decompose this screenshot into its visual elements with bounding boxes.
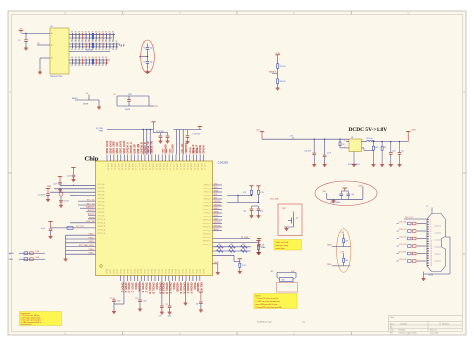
svg-text:LCD_D0: LCD_D0 [399,222,406,224]
svg-text:VSSIO: VSSIO [134,283,136,290]
svg-text:GPIO2: GPIO2 [148,269,150,274]
svg-text:4.7uF: 4.7uF [117,301,121,303]
svg-text:R12 10K: R12 10K [86,50,94,52]
svg-text:RTC_X1: RTC_X1 [87,200,96,202]
svg-text:13: 13 [430,248,432,250]
svg-text:88: 88 [92,57,94,59]
svg-text:15: 15 [430,253,432,255]
svg-text:GPIO4: GPIO4 [155,269,157,274]
svg-text:connector end: connector end [21,323,32,326]
svg-text:VCC18D: VCC18D [96,128,104,130]
svg-text:88: 88 [112,49,114,51]
svg-text:GPIO4: GPIO4 [121,269,123,274]
svg-text:VDD18: VDD18 [193,147,195,153]
svg-text:88: 88 [116,41,118,43]
svg-text:GPIO0: GPIO0 [107,269,109,274]
svg-text:PWR: PWR [99,131,104,133]
svg-text:GPIO6_B: GPIO6_B [204,206,211,208]
svg-text:88: 88 [105,57,107,59]
svg-text:0.1uF: 0.1uF [67,176,71,178]
svg-text:LCD_D2: LCD_D2 [399,237,406,239]
svg-text:88: 88 [92,65,94,67]
svg-text:GPIO8_C: GPIO8_C [141,283,143,293]
svg-text:SDIO_D0: SDIO_D0 [121,163,123,170]
svg-text:0.1uF 16V: 0.1uF 16V [193,133,202,135]
svg-text:VSSIO: VSSIO [155,283,157,290]
svg-text:Date:: Date: [390,329,395,332]
svg-text:C21: C21 [110,298,113,300]
svg-text:88: 88 [116,49,118,51]
svg-text:XI2: XI2 [271,271,274,273]
svg-text:MISO: MISO [214,208,219,210]
svg-text:traces short: traces short [276,247,286,250]
svg-text:GPIO3: GPIO3 [152,269,154,274]
svg-text:SDIO_D2: SDIO_D2 [169,163,171,170]
svg-text:SDIO_D3: SDIO_D3 [186,163,188,170]
svg-text:CS0: CS0 [214,218,218,220]
svg-text:SDIO_D2: SDIO_D2 [155,163,157,170]
svg-text:GPIO22: GPIO22 [214,204,221,206]
svg-text:R5 10K: R5 10K [280,66,287,68]
svg-text:GPIO9_C: GPIO9_C [144,283,146,293]
svg-text:GPIO34_A: GPIO34_A [127,142,130,154]
svg-text:1uF: 1uF [196,304,199,306]
svg-text:SDIO_D3: SDIO_D3 [145,163,147,170]
svg-text:SENSE_VP: SENSE_VP [148,141,150,154]
svg-text:GPIO21: GPIO21 [214,201,221,203]
svg-text:VSS3: VSS3 [166,149,168,154]
svg-text:ADC0: ADC0 [214,228,219,231]
svg-text:19: 19 [430,263,432,265]
svg-text:88: 88 [78,49,80,51]
svg-text:GPIO2: GPIO2 [183,269,185,274]
svg-text:GPIO2: GPIO2 [114,269,116,274]
svg-text:VREF: VREF [244,237,249,239]
svg-text:SDIO_D3: SDIO_D3 [131,163,133,170]
svg-text:88: 88 [102,41,104,43]
svg-text:Revision: Revision [442,323,449,325]
svg-text:R6 10K: R6 10K [280,81,287,83]
svg-text:PEN0: PEN0 [327,245,331,247]
svg-text:GPIO10_D: GPIO10_D [148,283,150,295]
svg-text:GPIO36_B: GPIO36_B [141,142,143,154]
svg-text:SDIO_D1: SDIO_D1 [110,163,112,170]
svg-text:100n: 100n [168,315,172,317]
svg-text:GPIO5: GPIO5 [158,269,160,274]
svg-text:GPIO3_B: GPIO3_B [204,195,211,197]
svg-text:88: 88 [78,65,80,67]
svg-text:GPIO25: GPIO25 [214,222,221,224]
svg-text:22p: 22p [150,48,153,50]
svg-text:GPIO16_E: GPIO16_E [179,283,181,295]
svg-text:16: 16 [430,255,432,257]
svg-text:88: 88 [85,65,87,67]
svg-text:USB_DP: USB_DP [134,144,136,154]
svg-text:17: 17 [430,258,432,260]
svg-text:GPIO3: GPIO3 [117,269,119,274]
svg-text:GPIO7_B: GPIO7_B [204,209,211,211]
svg-text:Y3 32.768KHz: Y3 32.768KHz [330,202,341,204]
svg-text:88: 88 [82,32,84,34]
svg-text:88: 88 [112,41,114,43]
svg-text:1. Place C21 close to pin 43: 1. Place C21 close to pin 43 [256,297,278,300]
svg-text:EXT_PAD_GND: EXT_PAD_GND [79,244,94,247]
svg-text:GPIO5_B: GPIO5_B [204,202,211,204]
svg-text:SDIO_D1: SDIO_D1 [124,163,126,170]
svg-text:22p: 22p [261,210,264,212]
svg-text:RX0: RX0 [214,187,218,189]
svg-text:88: 88 [112,32,114,34]
svg-text:0.1uF: 0.1uF [41,228,45,230]
svg-text:PEN1: PEN1 [327,264,331,266]
svg-text:GPIO9: GPIO9 [172,269,174,274]
svg-text:SDIO_D1: SDIO_D1 [165,163,167,170]
svg-text:VSS2: VSS2 [88,237,94,239]
svg-text:GPIO8: GPIO8 [134,269,136,274]
svg-text:SDIO_D0: SDIO_D0 [203,163,205,170]
svg-text:88: 88 [88,41,90,43]
svg-text:SDIO_DAT3: SDIO_DAT3 [109,140,112,153]
svg-text:SDIO_D0: SDIO_D0 [134,163,136,170]
svg-text:U4: U4 [351,137,353,139]
svg-text:VCCA18: VCCA18 [171,144,174,154]
svg-text:VSS5: VSS5 [88,253,94,255]
svg-text:GPIO11_D: GPIO11_D [151,283,153,294]
svg-text:TX0: TX0 [214,183,217,185]
svg-text:11: 11 [430,243,432,245]
svg-text:SDIO_D3: SDIO_D3 [172,163,174,170]
svg-text:C31 22uF: C31 22uF [304,151,311,153]
svg-text:SDIO_D2: SDIO_D2 [183,163,185,170]
svg-text:C:\Users\..\chip.SchDoc: C:\Users\..\chip.SchDoc [398,332,417,334]
svg-text:88: 88 [78,41,80,43]
svg-text:GPIO39: GPIO39 [200,144,202,153]
svg-text:SDIO_D2: SDIO_D2 [114,163,116,170]
svg-text:I2C0_SDA: I2C0_SDA [270,198,279,201]
svg-text:88: 88 [102,49,104,51]
svg-text:0.1uF: 0.1uF [143,301,147,303]
svg-text:88: 88 [82,49,84,51]
svg-text:GPIO1_B: GPIO1_B [204,188,211,190]
svg-text:SDIO_D0: SDIO_D0 [148,163,150,170]
svg-text:C8 1uF: C8 1uF [64,201,69,203]
svg-text:BOOT1: BOOT1 [88,214,96,216]
svg-text:0.1u: 0.1u [401,150,404,152]
svg-text:route USB pair with 90 ohm: route USB pair with 90 ohm [256,303,278,306]
svg-text:88: 88 [99,49,101,51]
svg-text:3. Keep RTC xtal away from SW: 3. Keep RTC xtal away from SW [256,306,282,309]
svg-text:L2 2.2uH: L2 2.2uH [366,138,373,140]
svg-text:D2: D2 [114,94,116,96]
svg-text:88: 88 [75,32,77,34]
svg-text:88: 88 [105,41,107,43]
svg-text:GPIO7: GPIO7 [200,269,202,274]
svg-text:GPIO5: GPIO5 [193,269,195,274]
svg-text:88: 88 [105,32,107,34]
svg-text:RESET: RESET [72,98,78,100]
svg-text:88: 88 [82,65,84,67]
svg-text:22uF: 22uF [53,183,57,185]
svg-text:Size: Size [390,323,394,325]
svg-text:Drawn By:: Drawn By: [430,332,439,334]
svg-text:C22: C22 [135,298,138,300]
svg-text:GPIO12_B: GPIO12_B [203,227,211,229]
svg-text:88: 88 [109,41,111,43]
svg-text:RTC_X2: RTC_X2 [87,203,96,205]
svg-text:VSSIO: VSSIO [172,283,174,290]
svg-text:88: 88 [85,41,87,43]
svg-text:SCL: SCL [214,194,218,196]
svg-text:File:: File: [390,332,394,334]
svg-text:VDD18D: VDD18D [176,283,178,292]
svg-text:GPIO15_B: GPIO15_B [203,237,211,239]
svg-text:R3: R3 [86,93,88,95]
svg-text:C23: C23 [165,304,168,306]
svg-text:VSS1: VSS1 [88,234,94,236]
svg-text:88: 88 [71,49,73,51]
svg-text:1uF: 1uF [159,315,162,317]
svg-text:Number: Number [401,322,408,325]
svg-text:88: 88 [102,65,104,67]
svg-text:C1: C1 [18,40,20,42]
svg-text:SDIO_D0: SDIO_D0 [162,163,164,170]
svg-text:USB_DM: USB_DM [138,144,140,154]
svg-text:GPIO4_B: GPIO4_B [204,199,211,201]
svg-text:88: 88 [88,65,90,67]
svg-text:GPIO18_F: GPIO18_F [186,283,188,295]
svg-text:0.1uF/16V: 0.1uF/16V [38,195,46,197]
svg-text:EN2_IN: EN2_IN [200,283,202,291]
svg-text:GPIO40: GPIO40 [202,144,205,153]
svg-text:22p: 22p [243,210,246,212]
svg-text:GPIO6_C: GPIO6_C [127,283,129,293]
svg-text:88: 88 [109,49,111,51]
svg-text:GPIO0: GPIO0 [141,269,143,274]
svg-text:SDIO_DAT0: SDIO_DAT0 [120,140,123,153]
svg-text:22p: 22p [352,194,355,196]
svg-text:C5: C5 [143,48,145,50]
svg-text:22uF: 22uF [392,150,396,152]
svg-text:18: 18 [430,260,432,262]
svg-text:Y1: Y1 [143,42,145,44]
svg-text:88: 88 [95,57,97,59]
svg-text:VCC_LCD: VCC_LCD [405,217,414,219]
svg-text:GPIO0: GPIO0 [176,269,178,274]
svg-text:GPIO7_C: GPIO7_C [131,283,133,293]
svg-text:GPIO2_B: GPIO2_B [204,192,211,194]
svg-text:VSS3: VSS3 [170,149,172,154]
svg-text:C41: C41 [262,244,265,246]
svg-text:14: 14 [430,251,432,253]
svg-text:2. GND via under thermal pad,: 2. GND via under thermal pad, [256,300,281,303]
svg-text:LCD_HS: LCD_HS [399,259,407,261]
svg-text:LCD_CLK: LCD_CLK [398,252,407,254]
svg-text:GPIO9_B: GPIO9_B [204,216,211,218]
svg-text:88: 88 [99,41,101,43]
svg-text:GPIO6: GPIO6 [127,269,129,274]
svg-text:88: 88 [95,32,97,34]
svg-text:GPIO0_B: GPIO0_B [204,185,211,187]
svg-text:WAKEUP: WAKEUP [86,206,95,209]
svg-text:SDIO_D3: SDIO_D3 [117,163,119,170]
svg-text:GPIO6: GPIO6 [162,269,164,274]
svg-text:88: 88 [75,57,77,59]
svg-text:88: 88 [99,65,101,67]
svg-text:88: 88 [99,32,101,34]
svg-text:+1.8V: +1.8V [411,130,417,132]
svg-text:GPIO1: GPIO1 [145,269,147,274]
svg-text:12: 12 [430,246,432,248]
svg-text:C30260: C30260 [218,161,229,165]
svg-text:GPIO17_E: GPIO17_E [182,283,184,295]
svg-text:Sheet of: Sheet of [430,329,437,332]
svg-text:SDIO_D2: SDIO_D2 [196,163,198,170]
svg-text:SW-PB: SW-PB [125,109,130,111]
svg-text:20: 20 [430,265,432,267]
svg-text:GPIO3: GPIO3 [186,269,188,274]
svg-text:GPIO8_B: GPIO8_B [204,213,211,215]
svg-text:GPIO19_F: GPIO19_F [189,283,191,295]
svg-text:XO2: XO2 [291,271,294,273]
svg-text:GPIO11_B: GPIO11_B [203,223,211,225]
svg-text:+1.8V: +1.8V [275,53,281,55]
svg-text:VSSIO: VSSIO [193,283,195,290]
svg-text:+5 V: +5 V [119,44,126,48]
svg-text:GPIO14_D: GPIO14_D [165,283,168,295]
svg-text:SDIO_D1: SDIO_D1 [193,163,195,170]
svg-text:RSTN: RSTN [89,217,95,219]
svg-text:GPIO7: GPIO7 [131,269,133,274]
svg-text:88: 88 [71,57,73,59]
svg-text:SDIO_D1: SDIO_D1 [138,163,140,170]
svg-text:5V0: 5V0 [290,136,293,138]
svg-text:GPIO5: GPIO5 [124,269,126,274]
svg-text:GPIO35_A: GPIO35_A [130,142,133,154]
svg-text:VSS4: VSS4 [88,249,94,251]
svg-text:VDD18: VDD18 [197,147,199,153]
svg-text:88: 88 [71,32,73,34]
svg-text:88: 88 [95,65,97,67]
svg-text:88: 88 [88,57,90,59]
svg-text:C6: C6 [143,62,145,64]
svg-text:88: 88 [75,41,77,43]
svg-text:GPIO9: GPIO9 [138,269,140,274]
svg-text:88: 88 [102,57,104,59]
svg-text:GPIO14_B: GPIO14_B [203,234,211,236]
svg-text:GPIO8: GPIO8 [169,269,171,274]
svg-text:88: 88 [88,32,90,34]
svg-text:88: 88 [92,41,94,43]
svg-text:SDIO_DAT1: SDIO_DAT1 [123,140,126,153]
svg-text:CHIP_EN: CHIP_EN [86,221,95,223]
svg-text:VSS3: VSS3 [88,241,94,243]
svg-text:88: 88 [78,32,80,34]
svg-text:XI32: XI32 [323,191,327,193]
svg-text:GPIO16_B: GPIO16_B [203,241,211,243]
svg-text:22p: 22p [150,62,153,64]
svg-text:Small Main Chip: Small Main Chip [257,322,272,324]
svg-text:XTAL: use 12pF: XTAL: use 12pF [276,241,290,244]
svg-text:SDIO_CLK: SDIO_CLK [117,142,119,154]
svg-text:load caps, keep: load caps, keep [276,245,289,247]
svg-text:SDIO_CMD: SDIO_CMD [114,141,116,153]
svg-text:88: 88 [92,32,94,34]
svg-text:GPIO8: GPIO8 [203,269,205,274]
svg-text:88: 88 [75,65,77,67]
svg-text:SW-PB: SW-PB [83,104,88,106]
svg-text:88: 88 [105,49,107,51]
svg-text:VBAT: VBAT [47,185,51,188]
svg-text:GPIO13_B: GPIO13_B [203,230,211,232]
svg-text:SENSE_VN: SENSE_VN [152,141,154,154]
svg-text:88: 88 [99,57,101,59]
svg-text:0.1uF: 0.1uF [327,153,331,155]
svg-text:0.1uF: 0.1uF [262,247,266,249]
svg-text:88: 88 [95,49,97,51]
svg-text:88: 88 [85,32,87,34]
svg-text:SDIO_D0: SDIO_D0 [190,163,192,170]
svg-text:SDIO_D3: SDIO_D3 [158,163,160,170]
svg-text:88: 88 [75,49,77,51]
svg-text:88: 88 [82,57,84,59]
svg-text:SDIO_D0: SDIO_D0 [176,163,178,170]
svg-text:CANH: CANH [9,252,15,255]
svg-text:CANL: CANL [9,258,14,261]
svg-text:RST: RST [155,106,158,108]
svg-text:J1: J1 [426,206,428,208]
svg-text:GPIO4_C: GPIO4_C [120,283,123,293]
svg-text:SDIO_DAT2: SDIO_DAT2 [106,140,109,153]
svg-text:100K: 100K [375,147,379,149]
svg-text:BOOT0: BOOT0 [88,210,96,212]
svg-text:DCDC 5V->1.8V: DCDC 5V->1.8V [349,127,388,133]
svg-text:XO32: XO32 [358,186,362,188]
svg-text:DB20: DB20 [429,274,434,276]
svg-text:88: 88 [71,41,73,43]
svg-text:SN74LVC245: SN74LVC245 [50,76,63,78]
svg-text:SDIO_D2: SDIO_D2 [141,163,143,170]
svg-text:88: 88 [109,32,111,34]
svg-text:7/9/2024: 7/9/2024 [398,330,405,332]
svg-text:GPIO10_B: GPIO10_B [203,220,211,222]
svg-text:VCC_RTC: VCC_RTC [76,226,85,228]
svg-text:GPIO7: GPIO7 [165,269,167,274]
svg-text:88: 88 [82,41,84,43]
svg-text:GPIO12_D: GPIO12_D [158,283,160,295]
svg-text:88: 88 [78,57,80,59]
svg-text:88: 88 [95,41,97,43]
svg-text:LCD_D3: LCD_D3 [399,244,406,246]
svg-text:10: 10 [430,241,432,243]
svg-text:88: 88 [85,57,87,59]
svg-text:A4: A4 [390,326,392,329]
svg-text:SDIO_D1: SDIO_D1 [179,163,181,170]
svg-text:GPIO37_B: GPIO37_B [145,142,147,154]
svg-text:GPIO1: GPIO1 [110,269,112,274]
svg-text:VSS3: VSS3 [163,149,165,154]
svg-text:SDIO_D0: SDIO_D0 [107,163,109,170]
svg-text:GPIO26: GPIO26 [214,225,221,227]
svg-text:47K: 47K [384,147,387,149]
svg-text:LCD_D1: LCD_D1 [399,229,406,231]
svg-text:MOSI: MOSI [214,211,219,213]
svg-text:SDIO_D2: SDIO_D2 [127,163,129,170]
svg-text:VDD33A: VDD33A [196,283,199,292]
svg-text:NOTE:: NOTE: [256,295,262,297]
svg-text:GPIO4: GPIO4 [190,269,192,274]
svg-text:GPIO17_B: GPIO17_B [203,244,211,246]
svg-text:GPIO1: GPIO1 [179,269,181,274]
